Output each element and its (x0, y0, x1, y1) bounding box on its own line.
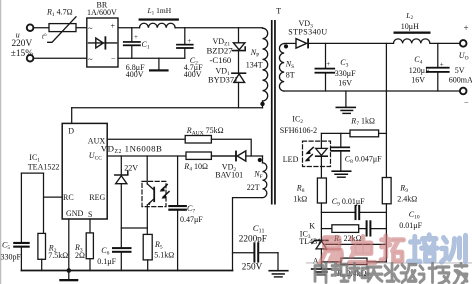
svg-text:5.1kΩ: 5.1kΩ (154, 251, 174, 260)
transformer secondary Ns (279, 44, 284, 92)
scan edge artifact (0, 0, 1, 284)
wire primary bottom rail (21, 270, 232, 272)
svg-text:+: + (440, 61, 444, 69)
svg-text:120μF: 120μF (409, 66, 430, 75)
svg-text:400V: 400V (184, 70, 202, 79)
ground (C11 secondary) (268, 253, 288, 278)
svg-text:0.47μF: 0.47μF (180, 215, 203, 224)
capacitor C4 (426, 43, 450, 91)
svg-text:2.4kΩ: 2.4kΩ (397, 195, 417, 204)
svg-text:10μH: 10μH (401, 22, 419, 31)
bridge rectifier BR (87, 18, 118, 67)
diode VD3 (296, 38, 394, 48)
inductor L2 (394, 32, 431, 44)
svg-text:5V: 5V (455, 66, 465, 75)
ground (C1/C2 node) (149, 58, 169, 71)
wire REG-node link (121, 227, 147, 229)
svg-text:+: + (134, 33, 138, 41)
capacitor C5 (13, 173, 43, 270)
svg-text:R7 1kΩ: R7 1kΩ (350, 117, 375, 128)
inductor L1 (139, 18, 179, 27)
wire (33, 57, 87, 59)
transformer T core (271, 20, 273, 205)
node secondary dot (284, 44, 288, 48)
svg-text:BYD37J: BYD37J (208, 76, 238, 85)
svg-text:BZD27: BZD27 (207, 46, 234, 56)
svg-text:C9 0.01μF: C9 0.01μF (332, 197, 365, 208)
wire (211, 139, 251, 156)
capacitor C9 (321, 205, 386, 220)
svg-text:STPS340U: STPS340U (288, 28, 327, 37)
svg-text:±15%: ±15% (11, 49, 33, 59)
input terminal top (27, 24, 34, 31)
wire (76, 27, 87, 29)
wire top rail DC+ (118, 27, 140, 29)
resistor R5 5.1k (143, 228, 152, 271)
watermark logo yi di tuo (red) (320, 236, 404, 264)
svg-text:−: − (111, 54, 116, 63)
node GND junction (67, 268, 72, 273)
svg-text:330μF: 330μF (335, 69, 356, 78)
svg-text:1A/600V: 1A/600V (87, 8, 117, 17)
svg-text:VDZ2 1N6008B: VDZ2 1N6008B (101, 143, 163, 155)
wire secondary top (284, 42, 296, 44)
watermark rule line (306, 262, 472, 263)
transformer primary Np (263, 28, 268, 101)
wire bottom rail DC- (118, 57, 185, 59)
capacitor C11 (233, 242, 279, 262)
node K / wire (321, 228, 332, 230)
wire aux winding top (262, 156, 264, 163)
output terminal minus (460, 88, 467, 95)
resistor RAUX (185, 136, 211, 144)
diode VD2 (235, 151, 262, 162)
op-amp IC3 TL431 (312, 240, 387, 249)
svg-text:S: S (88, 210, 92, 219)
svg-text:D: D (68, 127, 74, 136)
svg-text:SFH6106-2: SFH6106-2 (280, 126, 317, 135)
svg-text:600mA: 600mA (449, 75, 472, 84)
svg-text:16V: 16V (338, 78, 352, 87)
wire D line (72, 107, 263, 109)
ground (TL431 anode) (311, 262, 332, 276)
capacitor C6 (112, 247, 132, 270)
svg-text:22T: 22T (247, 183, 260, 192)
optocoupler IC2 LED (303, 133, 331, 178)
wire secondary bottom rail (284, 90, 460, 92)
capacitor C7 (168, 156, 187, 271)
svg-text:REG: REG (89, 193, 105, 202)
op IC1 TEA1522 box (62, 123, 107, 219)
wire pin RC (44, 173, 63, 233)
svg-text:220V: 220V (12, 39, 33, 49)
resistor R5 22k (332, 225, 366, 233)
svg-text:400V: 400V (126, 70, 144, 79)
svg-text:t°: t° (42, 33, 47, 41)
node aux dot (258, 158, 262, 162)
svg-text:L1 1mH: L1 1mH (147, 6, 172, 16)
svg-text:~: ~ (88, 54, 93, 64)
wire output rail (430, 42, 460, 44)
capacitor C1 (123, 28, 141, 59)
capacitor C10 (366, 220, 387, 236)
wire (320, 203, 322, 240)
wire anode A (320, 249, 322, 262)
svg-text:0.1μF: 0.1μF (97, 257, 116, 266)
svg-text:RC: RC (63, 193, 74, 202)
svg-text:TL431: TL431 (299, 237, 321, 246)
output terminal plus (460, 40, 467, 47)
wire pin GND (68, 219, 70, 271)
svg-text:22V: 22V (124, 164, 138, 173)
thermistor R1 (48, 17, 76, 43)
wire (175, 27, 262, 29)
svg-text:R4 10Ω: R4 10Ω (183, 162, 208, 173)
svg-text:GND: GND (66, 209, 84, 218)
wire aux winding bottom (233, 198, 263, 271)
transformer aux winding Nf (263, 163, 267, 198)
wire pin S (89, 219, 91, 233)
resistor R3 (86, 233, 93, 271)
ground (C8) (331, 170, 351, 178)
svg-text:7.5kΩ: 7.5kΩ (48, 251, 68, 260)
svg-text:−: − (464, 98, 469, 107)
svg-text:K: K (309, 221, 315, 230)
diode VD1 (232, 73, 246, 108)
svg-text:TEA1522: TEA1522 (28, 163, 60, 172)
svg-text:+: + (326, 60, 330, 68)
watermark slogan gray (315, 263, 467, 283)
svg-text:2Ω: 2Ω (75, 251, 85, 260)
capacitor C3 (315, 43, 336, 91)
capacitor C2 (176, 28, 194, 59)
svg-text:BAV101: BAV101 (215, 170, 243, 179)
node primary dot (260, 102, 264, 106)
svg-text:-C160: -C160 (210, 55, 232, 65)
svg-text:LED: LED (283, 155, 299, 164)
svg-text:RAUX 75kΩ: RAUX 75kΩ (186, 126, 224, 137)
svg-text:T: T (276, 7, 281, 16)
resistor R2 (38, 233, 46, 270)
zener VDz1 (233, 28, 246, 73)
wire (33, 27, 49, 29)
svg-text:R1 4.7Ω: R1 4.7Ω (46, 8, 73, 19)
resistor R4 (186, 152, 211, 159)
zener VDz2 (115, 156, 128, 247)
resistor R6 (321, 258, 386, 265)
svg-text:250V: 250V (242, 261, 263, 271)
svg-text:1kΩ: 1kΩ (293, 195, 307, 204)
capacitor C8 (330, 133, 350, 170)
wire (211, 155, 235, 157)
optocoupler IC2 phototransistor (142, 156, 169, 228)
wire pin D (71, 108, 73, 124)
wire feedback tap (385, 43, 387, 133)
resistor R7 (321, 130, 386, 137)
svg-text:134T: 134T (246, 61, 263, 70)
svg-text:+: + (187, 37, 191, 45)
wire pin Ucc (107, 155, 235, 157)
svg-text:330pF: 330pF (1, 252, 22, 261)
svg-text:16V: 16V (411, 75, 425, 84)
watermark logo pei xun (blue) (409, 235, 466, 262)
ground (C3 node) (336, 91, 357, 114)
svg-text:0.01μF: 0.01μF (399, 221, 422, 230)
svg-text:2200pF: 2200pF (239, 233, 267, 243)
resistor R9 (382, 133, 391, 262)
ground (primary main) (59, 271, 78, 282)
svg-text:+: + (464, 23, 469, 33)
wire pin AUX (107, 138, 185, 140)
svg-text:+: + (111, 22, 116, 31)
input terminal bottom (27, 55, 34, 62)
resistor R8 (317, 178, 326, 203)
svg-text:~: ~ (88, 23, 93, 33)
wire primary bottom stub (262, 101, 264, 108)
svg-text:8T: 8T (286, 71, 295, 80)
